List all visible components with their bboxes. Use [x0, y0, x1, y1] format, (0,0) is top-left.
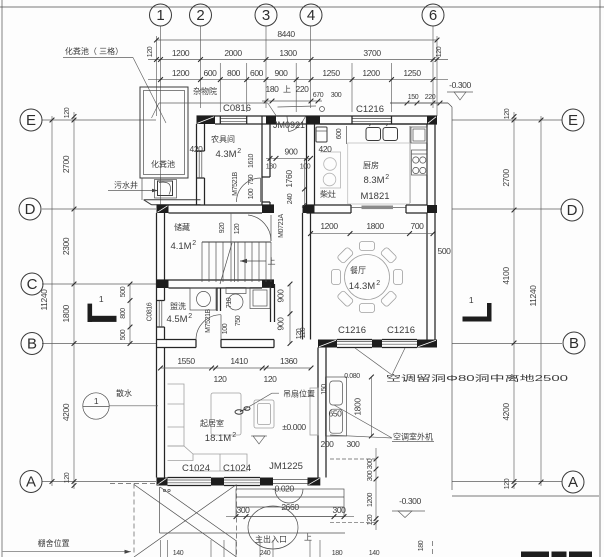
axis3 wall corridor west	[261, 124, 263, 205]
svg-text:B: B	[569, 335, 579, 352]
svg-text:杂物院: 杂物院	[193, 86, 217, 96]
svg-text:餐厅: 餐厅	[350, 266, 366, 275]
svg-text:100: 100	[222, 323, 229, 334]
section mark 1 left	[88, 304, 93, 322]
svg-text:C0816: C0816	[147, 302, 154, 321]
svg-text:11240: 11240	[39, 289, 49, 311]
shed hatch dashed borders	[236, 486, 238, 557]
svg-text:120: 120	[300, 327, 307, 338]
ceiling fan symbol	[235, 410, 243, 414]
svg-text:C1024: C1024	[182, 463, 210, 474]
entry steps	[236, 489, 344, 517]
door M7521B washroom	[220, 340, 222, 348]
svg-text:棚舍位置: 棚舍位置	[38, 538, 70, 548]
main entrance circle	[248, 506, 298, 549]
AC hole leaders	[355, 348, 392, 375]
axis 1 vertical into plan	[160, 108, 162, 205]
svg-text:1250: 1250	[403, 68, 421, 78]
svg-text:-0.300: -0.300	[449, 80, 471, 90]
svg-text:吊扇位置: 吊扇位置	[283, 389, 315, 399]
svg-text:1: 1	[156, 7, 164, 24]
svg-text:180: 180	[266, 164, 277, 171]
A wall	[157, 478, 168, 486]
svg-text:670: 670	[313, 92, 324, 99]
door JM1225 threshold	[273, 479, 308, 481]
svg-text:300: 300	[331, 92, 342, 99]
extension verticals row boundaries	[156, 36, 158, 116]
washbasin counter	[190, 288, 216, 310]
svg-text:220: 220	[425, 94, 436, 101]
right dim total 11240	[540, 116, 542, 486]
axis circle 4	[300, 4, 322, 26]
pier A mid1	[211, 478, 224, 486]
sofa bottom	[193, 454, 247, 471]
svg-text:1200: 1200	[172, 68, 190, 78]
dining west wall axis4	[302, 213, 304, 340]
washroom partition basin	[216, 288, 218, 311]
svg-text:200: 200	[321, 439, 335, 449]
axis leader horizontals left	[42, 119, 156, 121]
wall segment 3	[261, 116, 263, 124]
C wall	[157, 279, 275, 281]
svg-text:空调室外机: 空调室外机	[393, 432, 433, 442]
window C0816 top	[220, 123, 246, 125]
svg-text:盥洗: 盥洗	[170, 301, 186, 311]
svg-text:JM1225: JM1225	[269, 461, 303, 472]
svg-text:起居室: 起居室	[200, 418, 224, 428]
title partial bottom right	[521, 552, 549, 557]
washroom right dims	[289, 284, 291, 344]
pier A mid2	[260, 478, 273, 486]
svg-text:1360: 1360	[280, 356, 298, 366]
left dim chain	[73, 112, 75, 489]
svg-text:150: 150	[408, 94, 419, 101]
axis circle 1	[150, 4, 172, 26]
axis circle B left	[21, 333, 43, 355]
svg-text:C1216: C1216	[356, 104, 384, 115]
svg-text:120: 120	[504, 108, 511, 119]
svg-text:1300: 1300	[279, 48, 297, 58]
dining chairs	[360, 242, 375, 251]
svg-text:150: 150	[321, 384, 328, 395]
coffee table	[211, 393, 241, 435]
svg-text:180: 180	[266, 84, 280, 94]
washroom partition east	[270, 284, 272, 322]
svg-text:1800: 1800	[61, 304, 71, 322]
svg-text:240: 240	[287, 193, 294, 204]
svg-text:M7521B: M7521B	[205, 308, 212, 332]
window C1024 A2	[224, 477, 260, 479]
svg-text:2: 2	[237, 148, 241, 155]
svg-text:220: 220	[296, 84, 310, 94]
svg-text:750: 750	[235, 315, 242, 326]
pier C axis3	[262, 280, 274, 288]
svg-text:2: 2	[188, 313, 192, 320]
svg-text:300: 300	[347, 439, 361, 449]
top dim row2	[148, 59, 448, 61]
top dim row3	[148, 79, 448, 81]
svg-text:2: 2	[196, 7, 204, 24]
svg-text:240: 240	[260, 550, 271, 557]
pier C axis1	[157, 280, 169, 288]
kitchen double sink top	[366, 128, 381, 141]
svg-text:1200: 1200	[362, 68, 380, 78]
svg-text:140: 140	[173, 550, 184, 557]
svg-text:3: 3	[262, 7, 270, 24]
svg-text:600: 600	[250, 68, 264, 78]
svg-text:180: 180	[332, 550, 343, 557]
svg-text:-0.300: -0.300	[399, 496, 421, 506]
svg-text:600: 600	[204, 68, 218, 78]
svg-text:储藏: 储藏	[174, 222, 190, 232]
svg-text:4200: 4200	[501, 403, 511, 421]
svg-text:1200: 1200	[320, 221, 338, 231]
kitchen floor edge	[348, 143, 410, 204]
axis circle D right	[561, 199, 583, 221]
svg-text:上: 上	[283, 85, 291, 94]
axis circle E right	[562, 109, 584, 131]
svg-text:120: 120	[504, 478, 511, 489]
svg-text:4200: 4200	[61, 403, 71, 421]
washroom west dims	[129, 284, 131, 344]
dining top dims	[311, 233, 434, 235]
living east wall	[317, 348, 319, 478]
stairs	[202, 241, 271, 243]
svg-text:1800: 1800	[353, 398, 363, 416]
armchair	[254, 400, 274, 428]
apron line right	[390, 102, 448, 104]
svg-text:710: 710	[226, 297, 233, 308]
svg-text:420: 420	[190, 144, 204, 154]
door M0721A stair hall	[270, 215, 272, 241]
svg-text:1: 1	[469, 295, 474, 305]
pier axis2 north	[197, 116, 216, 124]
svg-text:M1821: M1821	[360, 191, 389, 202]
small circle drain	[320, 107, 325, 112]
toilet	[226, 288, 246, 294]
bottom partial dims	[160, 540, 162, 557]
dining table round	[345, 255, 390, 300]
svg-text:500: 500	[120, 286, 127, 297]
sheet border	[1, 0, 3, 557]
svg-text:M7521B: M7521B	[232, 171, 239, 195]
washing machine	[250, 288, 270, 309]
svg-text:8.3M: 8.3M	[363, 175, 384, 186]
door JM0921 opening + leaf	[287, 117, 289, 132]
svg-text:300: 300	[367, 458, 374, 469]
axis circle 6	[422, 4, 444, 26]
door M7521B farm room	[262, 176, 270, 178]
shed hatch diagonals	[134, 485, 237, 557]
pier B axis6	[417, 340, 437, 348]
west wall axis1	[156, 213, 158, 478]
svg-text:6: 6	[429, 7, 437, 24]
stair break line	[220, 243, 232, 284]
svg-text:污水井: 污水井	[114, 180, 138, 190]
window C1216 top	[352, 118, 392, 120]
svg-text:800: 800	[227, 68, 241, 78]
door M1821 sliding	[351, 207, 363, 209]
svg-text:A: A	[568, 474, 578, 491]
svg-text:1250: 1250	[322, 68, 340, 78]
pier NE corner	[427, 116, 437, 124]
svg-text:2700: 2700	[501, 169, 511, 187]
kitchen counter east	[409, 126, 411, 203]
svg-text:100: 100	[248, 188, 255, 199]
svg-text:2: 2	[232, 432, 236, 439]
svg-text:D: D	[25, 201, 36, 218]
svg-text:A: A	[26, 474, 36, 491]
septic tank	[140, 87, 188, 178]
svg-text:上: 上	[268, 257, 276, 266]
svg-text:900: 900	[285, 147, 299, 157]
window C1216 B1	[337, 341, 372, 343]
detail circle san shui	[83, 393, 109, 419]
svg-text:900: 900	[276, 289, 286, 303]
svg-text:500: 500	[120, 329, 127, 340]
D wall storage north	[157, 204, 275, 206]
svg-text:化粪池（ 三格）: 化粪池（ 三格）	[65, 46, 123, 56]
pier D axis3	[262, 205, 274, 213]
pier axis4 north	[307, 116, 321, 124]
svg-text:E: E	[26, 112, 36, 129]
svg-text:2: 2	[376, 280, 380, 287]
counter line left	[346, 126, 348, 144]
svg-text:18.1M: 18.1M	[205, 433, 231, 444]
yard fence wall	[141, 178, 143, 200]
svg-text:C: C	[27, 276, 38, 293]
kitchen sink unit top-left	[316, 127, 327, 142]
svg-text:柴灶: 柴灶	[320, 189, 336, 199]
svg-text:1550: 1550	[177, 356, 195, 366]
svg-text:120: 120	[234, 223, 241, 234]
bottom right dim chain	[375, 448, 377, 530]
axis circle D left	[19, 198, 41, 220]
window C0816 west washroom	[157, 300, 165, 302]
entry dim 300 2660 300	[226, 516, 354, 518]
svg-text:1610: 1610	[248, 154, 255, 168]
wood stove chai zao	[320, 152, 341, 188]
pier B SW dining	[318, 340, 337, 348]
kitchen stove 4 burners	[412, 150, 428, 175]
fan leader	[246, 393, 272, 409]
svg-text:1: 1	[99, 294, 104, 304]
svg-text:11240: 11240	[528, 285, 538, 307]
svg-text:1200: 1200	[367, 493, 374, 507]
svg-text:4.3M: 4.3M	[215, 149, 236, 160]
svg-text:120: 120	[64, 107, 71, 118]
svg-text:500: 500	[438, 246, 452, 256]
kitchen south wall D	[307, 204, 352, 206]
svg-text:2: 2	[385, 174, 389, 181]
AC unit leaders	[334, 405, 392, 438]
pier axis3 top corridor	[266, 116, 276, 124]
svg-text:-0.020: -0.020	[272, 484, 294, 494]
window on axis2 wall	[197, 150, 205, 152]
svg-text:0.080: 0.080	[344, 373, 360, 380]
axis circle B right	[563, 332, 585, 354]
svg-text:化粪池: 化粪池	[151, 159, 175, 169]
svg-text:300: 300	[237, 505, 251, 515]
svg-text:JM0921: JM0921	[273, 120, 305, 131]
svg-text:120: 120	[436, 46, 443, 57]
svg-text:600: 600	[336, 128, 343, 139]
svg-text:120: 120	[214, 374, 228, 384]
svg-text:C1216: C1216	[387, 325, 415, 336]
pier D axis1	[157, 205, 169, 213]
axis circle A left	[20, 471, 42, 493]
svg-text:1410: 1410	[230, 356, 248, 366]
svg-text:4100: 4100	[501, 267, 511, 285]
axis circle 2	[190, 4, 212, 26]
svg-text:180: 180	[418, 540, 425, 551]
svg-text:300: 300	[333, 505, 347, 515]
svg-text:920: 920	[219, 222, 226, 233]
svg-text:420: 420	[319, 144, 333, 154]
svg-text:100: 100	[300, 164, 311, 171]
terrace slab	[159, 487, 161, 533]
axis circle 3	[255, 4, 277, 26]
AC platform	[326, 377, 347, 436]
axis2 wall west of farm room	[196, 124, 198, 205]
svg-text:120: 120	[147, 46, 154, 57]
svg-text:C1216: C1216	[338, 325, 366, 336]
svg-text:B: B	[27, 336, 37, 353]
svg-text:D: D	[567, 202, 578, 219]
sofa corner	[168, 446, 194, 461]
left dim total 11240	[51, 116, 53, 486]
top dim total 8440	[157, 39, 438, 41]
pier B mid	[372, 340, 382, 348]
svg-text:8440: 8440	[277, 29, 295, 39]
stair up arrow	[240, 260, 266, 262]
svg-text:800: 800	[120, 308, 127, 319]
axis circle C left	[21, 273, 43, 295]
pier D axis6	[427, 205, 437, 213]
svg-text:900: 900	[275, 68, 289, 78]
svg-text:300: 300	[367, 470, 374, 481]
svg-text:1: 1	[94, 396, 99, 406]
svg-text:±0.000: ±0.000	[282, 422, 306, 432]
svg-text:厨房: 厨房	[363, 160, 379, 170]
axis4 wall corridor east kitchen west	[306, 124, 308, 205]
axis circle A right	[562, 471, 584, 493]
north wall E outline	[197, 115, 438, 117]
svg-text:120: 120	[367, 514, 374, 525]
svg-text:E: E	[568, 112, 578, 129]
weep hole dots	[163, 489, 165, 491]
axis extension verticals (top)	[160, 26, 162, 108]
svg-text:2700: 2700	[61, 155, 71, 173]
east wall axis6	[426, 124, 428, 205]
svg-text:2: 2	[192, 240, 196, 247]
svg-text:4: 4	[307, 7, 315, 24]
wall segment kitchen top west	[320, 123, 352, 125]
svg-text:4.1M: 4.1M	[170, 241, 191, 252]
axis leader horizontals right	[452, 119, 562, 121]
svg-text:650: 650	[329, 409, 343, 419]
B wall dims	[161, 367, 312, 369]
svg-text:上: 上	[304, 533, 312, 542]
svg-text:3700: 3700	[363, 48, 381, 58]
svg-text:1760: 1760	[284, 170, 294, 188]
svg-text:2000: 2000	[224, 48, 242, 58]
svg-text:700: 700	[411, 221, 425, 231]
svg-text:120: 120	[64, 472, 71, 483]
section mark 1 right	[463, 317, 492, 322]
svg-text:C1024: C1024	[223, 463, 251, 474]
wall segment kitchen top east	[392, 123, 428, 125]
sofa along west wall	[168, 384, 185, 446]
svg-text:4.5M: 4.5M	[166, 314, 187, 325]
svg-text:M0721A: M0721A	[278, 213, 285, 237]
svg-text:750: 750	[248, 174, 255, 185]
window C1216 B2	[382, 341, 417, 343]
axis circle E left	[20, 109, 42, 131]
pier A living east	[308, 478, 321, 486]
kitchen sink box	[411, 127, 427, 143]
svg-text:空调留洞Φ80洞中离地2500: 空调留洞Φ80洞中离地2500	[386, 373, 569, 383]
svg-text:农具间: 农具间	[211, 134, 235, 144]
svg-text:散水: 散水	[116, 388, 132, 398]
svg-text:120: 120	[264, 374, 278, 384]
svg-text:140: 140	[369, 550, 380, 557]
window C1024 A1	[168, 477, 212, 479]
svg-text:900: 900	[276, 317, 286, 331]
svg-text:2300: 2300	[61, 237, 71, 255]
right dim chain	[513, 112, 515, 489]
B wall west portion	[157, 339, 197, 341]
door arc bottom	[275, 489, 303, 503]
sewage well	[155, 180, 177, 199]
tv cabinet	[310, 388, 318, 435]
svg-text:1200: 1200	[172, 48, 190, 58]
svg-text:2660: 2660	[281, 502, 299, 512]
svg-text:1800: 1800	[366, 221, 384, 231]
svg-text:14.3M: 14.3M	[349, 281, 375, 292]
svg-text:C0816: C0816	[223, 103, 251, 114]
